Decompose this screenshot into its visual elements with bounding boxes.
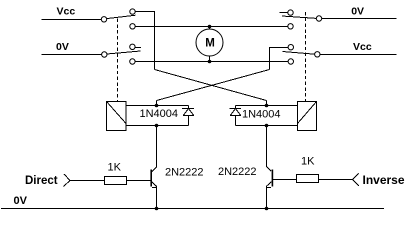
junction dot motor top (208, 25, 212, 29)
wire motor bottom (B2 to D2) (135, 61, 289, 63)
motor M circle (196, 29, 223, 56)
contact C2 (288, 24, 293, 29)
svg-text:0V: 0V (351, 5, 364, 17)
resistor R2 1K right (297, 175, 319, 183)
wire 0V bottom rail (1, 208, 384, 210)
contact B2 (130, 59, 135, 64)
relay coil K2 box (298, 102, 317, 131)
relay coil K1 diagonal (107, 102, 127, 124)
input chevron Direct (64, 174, 71, 187)
svg-text:1N4004: 1N4004 (140, 108, 179, 120)
contact C1 (288, 10, 293, 15)
wire right collector drop (266, 126, 268, 167)
wire crossover diagonal A1-to-right-relay (155, 70, 267, 101)
svg-text:0V: 0V (56, 41, 69, 53)
contact A1 (130, 9, 135, 14)
motor M stubs (209, 27, 211, 30)
svg-text:M: M (205, 38, 215, 50)
wire Vcc left feed (42, 19, 102, 21)
transistor Q2 2N2222 right leads (267, 166, 272, 171)
diode D2 1N4004 right symbol (235, 106, 237, 109)
wire A1 lead to crossover (135, 12, 155, 70)
svg-text:1K: 1K (108, 162, 122, 174)
mechanical link left relay (dashed) (117, 19, 119, 102)
contact D2 (288, 59, 293, 64)
svg-text:Vcc: Vcc (57, 6, 76, 18)
transistor Q2 base bar (272, 170, 274, 187)
wire left collector drop (156, 126, 158, 168)
wire 0V left feed (42, 54, 103, 56)
svg-text:Direct: Direct (25, 175, 58, 187)
junction dot left relay bottom (155, 124, 159, 128)
wire left base input (70, 180, 105, 182)
wire motor top (A2 to C2) (135, 26, 288, 28)
junction dot right relay top (265, 104, 269, 108)
junction dot right relay bottom (265, 124, 269, 128)
junction dot left emitter on rail (155, 207, 159, 211)
switch blade right pole 1 (282, 16, 317, 18)
junction dot motor bottom (208, 60, 212, 64)
relay coil K1 box (107, 102, 127, 131)
contact A2 (130, 24, 135, 29)
mechanical link right relay (dashed) (305, 12, 307, 102)
svg-text:Vcc: Vcc (353, 41, 372, 53)
junction dot right emitter on rail (265, 207, 269, 211)
wire right relay bottom to diode (236, 125, 298, 127)
resistor R1 1K left (105, 177, 127, 185)
pole P2 left (102, 52, 107, 57)
wire right base input (273, 179, 296, 181)
diode D1 1N4004 left symbol (188, 106, 190, 109)
switch blade left pole 1 (107, 15, 136, 18)
svg-text:0V: 0V (14, 195, 28, 207)
transistor Q1 base bar (150, 170, 152, 187)
switch blade left pole 2 (107, 51, 141, 54)
svg-text:2N2222: 2N2222 (165, 166, 204, 178)
wire right emitter drop (266, 186, 268, 209)
wire drop to left relay top (156, 101, 158, 106)
pole P4 right (315, 52, 320, 57)
wire left resistor to base (127, 180, 151, 182)
wire right resistor to chevron (319, 179, 353, 181)
contact B1 (130, 44, 135, 49)
wire right relay top to diode (236, 105, 298, 107)
pole P3 right (316, 16, 321, 21)
pole P1 left (101, 17, 106, 22)
wire left relay top to diode (126, 105, 189, 107)
wire B1 stub (135, 47, 141, 49)
wire D1 lead to crossover (270, 48, 289, 70)
svg-text:1K: 1K (301, 156, 315, 168)
svg-text:1N4004: 1N4004 (242, 109, 281, 121)
wire 0V right feed (322, 18, 397, 20)
svg-text:2N2222: 2N2222 (218, 166, 257, 178)
switch blade right pole 2 (283, 52, 316, 55)
junction dot left relay top (155, 104, 159, 108)
wire Vcc right feed (320, 54, 397, 56)
wire drop to right relay top (266, 101, 268, 106)
relay coil K2 diagonal (298, 102, 317, 124)
transistor Q1 2N2222 left leads (152, 167, 157, 172)
contact D1 (288, 45, 293, 50)
wire left emitter drop (156, 186, 158, 209)
input chevron Inverse (353, 174, 360, 187)
svg-text:Inverse: Inverse (363, 173, 405, 187)
wire left relay bottom to diode (126, 125, 189, 127)
wire C1 stub (280, 12, 289, 14)
wire crossover diagonal D1-to-left-relay (157, 70, 270, 101)
